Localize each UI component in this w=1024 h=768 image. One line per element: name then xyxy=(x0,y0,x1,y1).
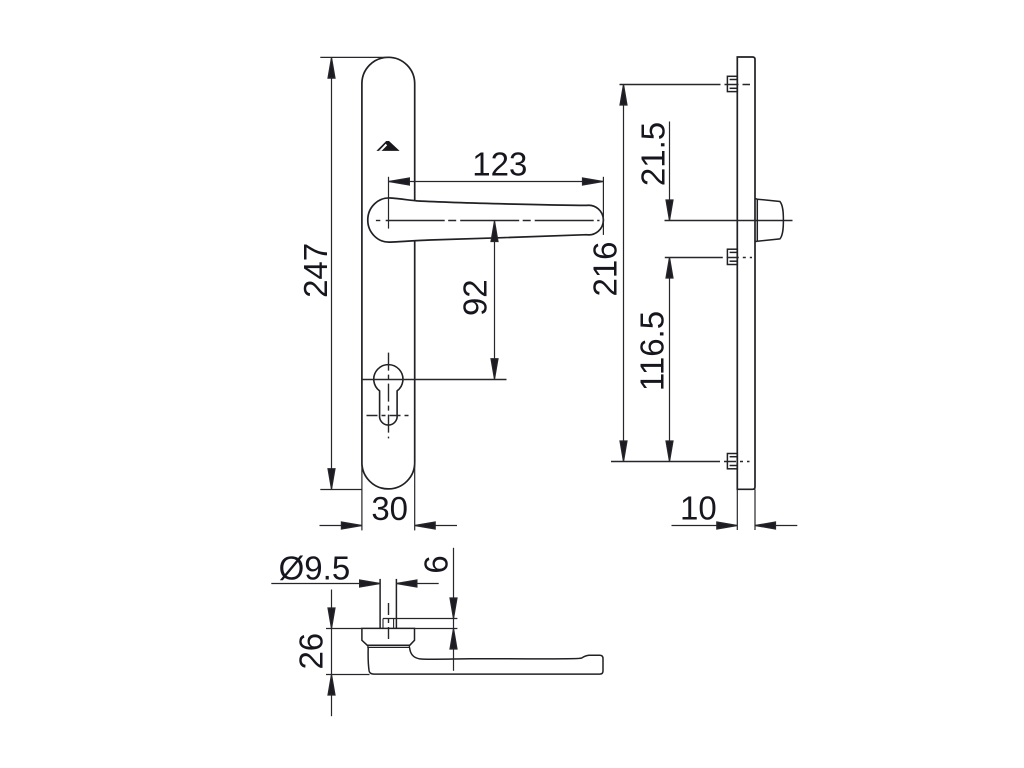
dimension 116.5 line xyxy=(669,258,671,462)
dimension dia 9.5 line left xyxy=(271,583,380,585)
dimension 116.5 arrow up xyxy=(666,258,673,279)
dimension 6 line xyxy=(453,548,455,671)
dimension 30 extension left xyxy=(361,462,363,530)
dimension 247 extension top xyxy=(320,56,387,58)
keyhole euro cylinder xyxy=(374,365,403,425)
bottom view spindle centerline xyxy=(388,603,390,643)
dimension 123 extension right xyxy=(602,177,604,235)
middle screw centerline xyxy=(665,257,752,259)
svg-text:216: 216 xyxy=(586,241,623,296)
dimension 6 extension top xyxy=(383,618,457,620)
dimension 216 line xyxy=(623,85,625,462)
keyhole horizontal centerline xyxy=(361,379,506,381)
svg-text:92: 92 xyxy=(457,279,494,316)
bottom view collar lip xyxy=(368,645,410,647)
handle centerline side xyxy=(665,220,793,222)
dimension 30 arrow right xyxy=(415,522,436,529)
dimension 10 arrow right xyxy=(755,522,776,529)
svg-text:6: 6 xyxy=(418,555,455,573)
dimension 30 arrow left xyxy=(341,522,362,529)
svg-text:247: 247 xyxy=(297,243,334,298)
dimension 26 extension bottom xyxy=(326,674,370,676)
bottom view grip outline xyxy=(368,648,603,675)
side plate extension lines for 10 xyxy=(736,489,738,530)
top screw centerline xyxy=(620,84,751,86)
dimension dia 9.5 arrow left xyxy=(360,580,381,587)
svg-text:116.5: 116.5 xyxy=(634,311,671,391)
dimension 21.5 line xyxy=(669,122,671,221)
svg-text:30: 30 xyxy=(371,490,408,527)
bottom screw centerline xyxy=(611,461,750,463)
side view backplate xyxy=(737,57,755,489)
dimension 123 extension left xyxy=(388,177,390,229)
dimension 123 line xyxy=(389,181,604,183)
svg-text:26: 26 xyxy=(293,633,330,670)
keyhole vertical centerline xyxy=(388,353,390,439)
side view screw bottom xyxy=(727,454,737,469)
dimension 116.5 arrow down xyxy=(666,441,673,462)
dimension 26 arrow down xyxy=(328,608,335,629)
dimension 216 arrow up xyxy=(620,85,627,106)
front view backplate xyxy=(362,57,415,489)
side view screw top xyxy=(727,76,737,91)
spindle hub side view flange xyxy=(756,199,758,242)
dimension 10 line right xyxy=(755,525,797,527)
dimension 247 extension bottom xyxy=(320,489,362,491)
dimension 30 line right xyxy=(415,525,457,527)
bottom view spindle xyxy=(379,579,381,629)
dimension 30 line left xyxy=(320,525,362,527)
bottom view collar xyxy=(362,628,415,645)
dimension 6 arrow up xyxy=(450,629,457,650)
svg-text:123: 123 xyxy=(472,145,527,182)
dimension 247 arrow up xyxy=(328,58,335,79)
dimension 92 arrow up xyxy=(491,221,498,242)
logo xyxy=(376,141,399,151)
dimension 6 extension bottom xyxy=(415,628,458,630)
dimension 123 arrow left xyxy=(389,178,410,185)
dimension dia 9.5 arrow right xyxy=(396,580,417,587)
dimension 10 line left xyxy=(672,525,738,527)
spindle hub side view body xyxy=(757,199,783,241)
dimension 10 arrow left xyxy=(717,522,738,529)
dimension 26 extension top xyxy=(326,628,362,630)
keyhole slot centerline xyxy=(367,415,411,417)
dimension 92 line xyxy=(494,221,496,379)
bottom view spindle chamfer xyxy=(382,619,384,629)
dimension 216 arrow down xyxy=(620,441,627,462)
svg-text:21.5: 21.5 xyxy=(635,122,672,186)
svg-text:10: 10 xyxy=(680,490,717,527)
dimension 123 arrow right xyxy=(583,178,604,185)
side view screw middle xyxy=(727,249,737,264)
dimension 92 arrow down xyxy=(491,359,498,380)
dimension 30 extension right xyxy=(414,462,416,530)
handle centerline front xyxy=(376,220,380,222)
dimension 21.5 arrow down xyxy=(666,200,673,221)
dimension 26 arrow up xyxy=(328,675,335,696)
dimension 26 line xyxy=(331,590,333,717)
dimension 247 arrow down xyxy=(328,469,335,490)
lever handle front view xyxy=(368,198,604,242)
dimension 247 line xyxy=(331,58,333,490)
svg-text:Ø9.5: Ø9.5 xyxy=(279,549,351,586)
dimension dia 9.5 line right xyxy=(396,583,438,585)
dimension 6 arrow down xyxy=(450,598,457,619)
